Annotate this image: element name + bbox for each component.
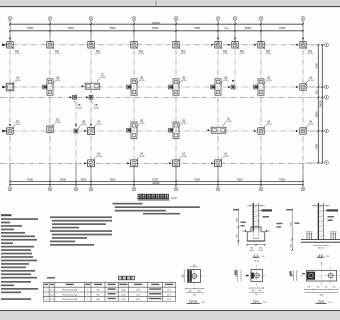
svg-text:1/100: 1/100 <box>171 197 178 200</box>
svg-text:ZJ-1A: ZJ-1A <box>189 300 197 304</box>
svg-text:7500: 7500 <box>314 62 318 68</box>
row2 cap axis x=261 <box>254 76 272 95</box>
svg-text:(ZJ1): (ZJ1) <box>308 53 313 55</box>
svg-text:PHC500-125-10A: PHC500-125-10A <box>62 293 78 296</box>
svg-text:(ZJ2): (ZJ2) <box>181 80 186 82</box>
svg-text:(ZJ2): (ZJ2) <box>139 80 144 82</box>
svg-text:(ZJ2): (ZJ2) <box>94 107 99 109</box>
svg-text:300: 300 <box>189 291 192 293</box>
svg-text:(350): (350) <box>249 250 254 252</box>
svg-text:(ZJ2): (ZJ2) <box>266 80 271 82</box>
section detail 1-1 <box>233 203 272 258</box>
svg-text:7500: 7500 <box>67 26 74 30</box>
svg-text:(ZJ1): (ZJ1) <box>139 53 144 55</box>
right axis bubbles <box>325 43 329 47</box>
svg-text:7500: 7500 <box>279 26 286 30</box>
svg-text:(ZJ1): (ZJ1) <box>181 53 186 55</box>
cap detail ZJ-3 <box>290 262 340 304</box>
svg-text:(350): (350) <box>258 250 263 252</box>
section cut arrows left <box>2 43 5 46</box>
row3 piles 76,91 <box>74 120 87 133</box>
svg-text:3000: 3000 <box>80 177 87 181</box>
svg-text:300: 300 <box>198 291 201 293</box>
svg-text:300: 300 <box>252 290 255 292</box>
svg-text:1:30: 1:30 <box>263 302 267 304</box>
svg-text:900: 900 <box>317 287 320 289</box>
sub-axis x=235 <box>234 21 236 90</box>
svg-text:7500: 7500 <box>109 177 116 181</box>
svg-text:1:30: 1:30 <box>326 256 330 258</box>
svg-text:PHC500-125-10A: PHC500-125-10A <box>62 289 78 292</box>
svg-text:(ZJ2): (ZJ2) <box>223 80 228 82</box>
row3 cap axis2 <box>47 119 61 133</box>
cap detail ZJ-1 <box>235 260 269 304</box>
row2 cap axis2 <box>43 76 61 95</box>
svg-text:7500: 7500 <box>27 26 34 30</box>
svg-text:ZJ-1: ZJ-1 <box>50 290 54 292</box>
svg-text:7500: 7500 <box>236 177 243 181</box>
svg-text:(ZJ1): (ZJ1) <box>240 53 245 55</box>
plan title <box>138 194 142 198</box>
svg-text:ZJ-1: ZJ-1 <box>253 300 259 304</box>
svg-text:(ZJ2): (ZJ2) <box>181 123 186 125</box>
svg-text:24600: 24600 <box>152 21 160 25</box>
top dimension line overall <box>10 23 303 25</box>
bottom frame band <box>0 310 340 312</box>
top frame band <box>0 0 340 6</box>
svg-text:(ZJ3): (ZJ3) <box>139 156 144 158</box>
svg-text:7500: 7500 <box>314 143 318 149</box>
svg-text:7500: 7500 <box>194 177 201 181</box>
svg-text:3000: 3000 <box>291 222 293 226</box>
row3 cap axis x=134 <box>127 120 145 139</box>
table title <box>119 276 122 280</box>
bottom axis bubbles <box>8 187 12 191</box>
svg-text:(ZJ1): (ZJ1) <box>223 53 228 55</box>
svg-text:7500: 7500 <box>152 26 159 30</box>
right dimension lines <box>317 45 319 163</box>
svg-text:(ZJ2): (ZJ2) <box>15 80 20 82</box>
svg-text:300: 300 <box>259 290 262 292</box>
svg-text:1800: 1800 <box>320 294 324 296</box>
svg-text:4500: 4500 <box>60 177 67 181</box>
row1 cap at sub-axis 235 <box>228 38 245 56</box>
svg-text:PHC500-125-10A: PHC500-125-10A <box>62 298 78 301</box>
row2 cap axis3 <box>82 73 106 89</box>
horizontal row axes <box>2 44 324 46</box>
svg-text:(ZJ1): (ZJ1) <box>308 124 313 126</box>
svg-text:900: 900 <box>292 274 294 277</box>
svg-text:7500: 7500 <box>279 177 286 181</box>
bottom dimension lines <box>10 180 303 182</box>
svg-text:(ZJ3): (ZJ3) <box>100 77 105 79</box>
svg-text:(ZJ1): (ZJ1) <box>266 124 271 126</box>
svg-text:1:30: 1:30 <box>201 302 205 304</box>
row2 cap axis8 <box>296 76 314 90</box>
svg-text:1:30: 1:30 <box>328 302 332 304</box>
svg-text:(ZJ1): (ZJ1) <box>55 53 60 55</box>
svg-text:(ZJ3): (ZJ3) <box>181 156 186 158</box>
top dimension line bays <box>10 30 303 32</box>
svg-text:450: 450 <box>308 287 311 289</box>
section detail 2-2 <box>277 203 340 258</box>
row2 cap axis 218 + pile <box>211 76 229 95</box>
svg-text:1:30: 1:30 <box>261 256 265 258</box>
svg-text:6600: 6600 <box>314 111 318 117</box>
cap detail ZJ-1A <box>181 265 207 305</box>
row3 cap axis1 <box>4 120 21 134</box>
row4 pile caps <box>84 153 102 167</box>
svg-text:1-1: 1-1 <box>254 253 259 257</box>
vertical grid axes <box>9 21 11 187</box>
sub row axis <box>0 96 324 98</box>
title notes <box>113 203 143 205</box>
svg-text:(ZJ2): (ZJ2) <box>81 124 86 126</box>
top axis bubbles <box>8 17 12 21</box>
row2 cap axis x=176 <box>169 76 187 95</box>
svg-text:3000: 3000 <box>224 28 230 30</box>
svg-text:(ZJ1): (ZJ1) <box>266 53 271 55</box>
svg-text:900: 900 <box>291 244 293 247</box>
svg-text:7500: 7500 <box>27 177 34 181</box>
svg-text:7500: 7500 <box>109 26 116 30</box>
svg-text:7500: 7500 <box>152 177 159 181</box>
svg-text:(ZJ1): (ZJ1) <box>15 124 20 126</box>
svg-text:(ZJ3): (ZJ3) <box>226 121 231 123</box>
row3 cap axis8 <box>296 120 314 134</box>
svg-text:24600: 24600 <box>152 181 160 185</box>
row1 pile caps <box>7 42 20 56</box>
svg-text:ZJ-3: ZJ-3 <box>50 299 54 301</box>
svg-text:600: 600 <box>183 275 185 278</box>
svg-text:ZJ-2: ZJ-2 <box>50 294 54 296</box>
svg-text:(ZJ1): (ZJ1) <box>55 122 60 124</box>
svg-text:(ZJ2): (ZJ2) <box>77 107 82 109</box>
sub-axis x=76 <box>75 93 77 187</box>
sub-row piles <box>70 95 83 109</box>
svg-text:(ZJ1): (ZJ1) <box>308 80 313 82</box>
notes column2 <box>50 216 112 218</box>
svg-text:350 350: 350 350 <box>318 247 325 249</box>
svg-text:(ZJ2): (ZJ2) <box>55 80 60 82</box>
svg-text:600: 600 <box>193 295 196 297</box>
row2 cap axis1 <box>3 76 21 90</box>
svg-text:(ZJ2): (ZJ2) <box>96 124 101 126</box>
parameter table <box>42 282 44 301</box>
row3 cap axis x=176 <box>169 120 187 139</box>
notes column1 <box>1 214 12 216</box>
svg-text:600: 600 <box>255 294 258 296</box>
row3 cap axis7 <box>254 120 272 134</box>
svg-text:43.5: 43.5 <box>167 294 171 296</box>
svg-text:47.5: 47.5 <box>167 290 171 292</box>
svg-text:900: 900 <box>237 234 239 237</box>
svg-text:(ZJ1): (ZJ1) <box>96 53 101 55</box>
svg-text:250: 250 <box>333 287 336 289</box>
svg-text:3000: 3000 <box>237 218 239 222</box>
svg-text:4500: 4500 <box>245 26 252 30</box>
svg-text:ZJ-3: ZJ-3 <box>318 300 324 304</box>
svg-text:(ZJ1): (ZJ1) <box>15 53 20 55</box>
svg-text:(ZJ3): (ZJ3) <box>223 156 228 158</box>
svg-text:40.5: 40.5 <box>167 299 171 301</box>
row2 cap axis x=134 <box>127 76 145 95</box>
svg-text:24000: 24000 <box>319 100 322 108</box>
svg-text:(ZJ3): (ZJ3) <box>96 156 101 158</box>
svg-text:2-2: 2-2 <box>318 253 323 257</box>
row3 cap axis 218 <box>208 117 232 133</box>
svg-text:450: 450 <box>325 287 328 289</box>
svg-text:7500: 7500 <box>194 26 201 30</box>
svg-text:75: 75 <box>193 265 195 267</box>
svg-text:(ZJ2): (ZJ2) <box>139 123 144 125</box>
svg-text:(3-3): (3-3) <box>254 260 259 262</box>
